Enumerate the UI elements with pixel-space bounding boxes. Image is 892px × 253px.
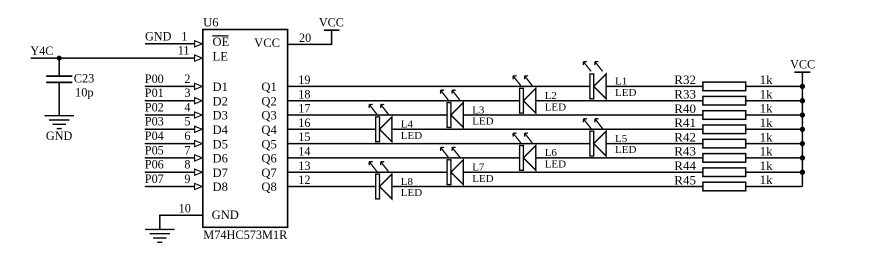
svg-text:1k: 1k (760, 86, 774, 101)
svg-text:10p: 10p (75, 85, 94, 99)
wire R33 to VCC bus (746, 100, 803, 102)
wire P03 to U6 pin 5 (D4) (145, 128, 195, 130)
svg-text:Q8: Q8 (261, 180, 276, 194)
svg-text:LED: LED (472, 116, 493, 128)
svg-text:P07: P07 (145, 172, 164, 186)
svg-text:D3: D3 (213, 109, 228, 123)
svg-text:LED: LED (545, 159, 566, 171)
wire U6 pin 16 (Q4) to LED L4 (288, 128, 378, 130)
wire U6 pin 18 (Q2) to LED L2 (288, 100, 522, 102)
wire U6 pin 15 (Q5) to LED L5 (288, 143, 592, 145)
wire L5 to R42 (606, 143, 703, 145)
svg-text:R45: R45 (674, 172, 696, 187)
pin arrow LE (195, 55, 203, 61)
svg-text:5: 5 (184, 115, 190, 129)
wire R43 to VCC bus (746, 157, 803, 159)
wire L8 to R45 (392, 186, 703, 188)
svg-text:LED: LED (615, 144, 636, 156)
junction Y4C / C23 (57, 56, 62, 61)
svg-text:P01: P01 (145, 86, 164, 100)
resistor R41 (703, 125, 746, 134)
pin arrow OE (195, 41, 203, 47)
svg-text:1: 1 (181, 30, 187, 44)
svg-text:6: 6 (184, 129, 190, 143)
ground (C23) (44, 116, 73, 129)
svg-text:VCC: VCC (319, 16, 344, 30)
pin arrow D7 (195, 169, 203, 175)
junction R33 / VCC bus (800, 98, 805, 103)
wire U6 pin 19 (Q1) to LED L1 (288, 85, 592, 87)
svg-text:R44: R44 (674, 158, 696, 173)
pin arrow D5 (195, 141, 203, 147)
svg-text:GND: GND (212, 208, 239, 222)
svg-text:9: 9 (184, 172, 190, 186)
junction R41 / VCC bus (800, 127, 805, 132)
svg-text:15: 15 (298, 130, 310, 144)
svg-text:1k: 1k (760, 72, 774, 87)
svg-text:19: 19 (298, 73, 310, 87)
svg-text:1k: 1k (760, 115, 774, 130)
svg-text:GND: GND (145, 30, 172, 44)
svg-text:17: 17 (298, 102, 310, 116)
pin arrow D3 (195, 112, 203, 118)
svg-text:D4: D4 (213, 123, 229, 137)
wire P01 to U6 pin 3 (D2) (145, 100, 195, 102)
svg-text:R40: R40 (674, 101, 696, 116)
LED L8 (369, 162, 392, 199)
wire P05 to U6 pin 7 (D6) (145, 157, 195, 159)
svg-text:10: 10 (179, 202, 191, 216)
wire P00 to U6 pin 2 (D1) (145, 85, 195, 87)
pin label OE (with overline) (212, 35, 229, 49)
wire P02 to U6 pin 4 (D3) (145, 114, 195, 116)
svg-text:Q7: Q7 (261, 166, 276, 180)
svg-text:8: 8 (184, 158, 190, 172)
svg-text:P05: P05 (145, 143, 164, 157)
svg-text:Q5: Q5 (261, 137, 276, 151)
svg-text:R33: R33 (674, 87, 696, 102)
svg-text:C23: C23 (74, 72, 95, 86)
power VCC (U6 pin 20) (319, 16, 344, 31)
svg-text:D5: D5 (213, 137, 228, 151)
svg-text:1k: 1k (760, 129, 774, 144)
wire Y4C to U6 pin 11 (LE) (31, 57, 195, 59)
svg-text:D2: D2 (213, 94, 228, 108)
resistor R32 (703, 82, 746, 91)
svg-text:16: 16 (298, 116, 310, 130)
svg-text:D1: D1 (213, 80, 228, 94)
resistor R42 (703, 139, 746, 148)
wire P07 to U6 pin 9 (D8) (145, 186, 195, 188)
wire R42 to VCC bus (746, 143, 803, 145)
svg-text:U6: U6 (203, 16, 218, 30)
junction R32 / VCC bus (800, 84, 805, 89)
junction R40 / VCC bus (800, 112, 805, 117)
svg-text:LED: LED (401, 130, 422, 142)
svg-text:7: 7 (184, 143, 190, 157)
svg-text:OE: OE (213, 35, 230, 49)
resistor R40 (703, 111, 746, 120)
resistor R43 (703, 154, 746, 163)
svg-text:R32: R32 (674, 72, 696, 87)
svg-text:Q2: Q2 (261, 94, 276, 108)
svg-text:4: 4 (184, 100, 190, 114)
svg-text:3: 3 (184, 86, 190, 100)
svg-text:Q6: Q6 (261, 152, 276, 166)
svg-text:18: 18 (298, 87, 310, 101)
svg-text:VCC: VCC (254, 36, 280, 50)
svg-text:2: 2 (184, 72, 190, 86)
svg-text:1k: 1k (760, 158, 774, 173)
wire R45 to VCC bus (746, 186, 803, 188)
wire R32 to VCC bus (746, 85, 803, 87)
pin arrow D2 (195, 98, 203, 104)
LED L4 (369, 105, 392, 142)
svg-text:P03: P03 (145, 115, 164, 129)
wire U6 pin 10 to ground (160, 215, 203, 229)
wire R40 to VCC bus (746, 114, 803, 116)
LED L1 (583, 62, 606, 99)
wire L4 to R41 (392, 128, 703, 130)
power VCC (bus) (790, 58, 815, 73)
svg-text:LED: LED (472, 173, 493, 185)
wire R44 to VCC bus (746, 171, 803, 173)
svg-text:Q3: Q3 (261, 109, 276, 123)
wire C23 to ground (58, 82, 60, 115)
svg-text:R41: R41 (674, 115, 696, 130)
pin arrow D1 (195, 83, 203, 89)
LED L2 (513, 76, 536, 113)
wire U6 pin 20 to VCC (288, 30, 332, 44)
wire R41 to VCC bus (746, 128, 803, 130)
svg-text:20: 20 (299, 31, 311, 45)
svg-text:1k: 1k (760, 172, 774, 187)
wire L2 to R33 (536, 100, 703, 102)
pin arrow D8 (195, 183, 203, 189)
wire L7 to R44 (463, 171, 703, 173)
svg-text:D6: D6 (213, 152, 228, 166)
wire L3 to R40 (463, 114, 703, 116)
svg-text:1k: 1k (760, 144, 774, 159)
wire U6 pin 14 (Q6) to LED L6 (288, 157, 522, 159)
resistor R45 (703, 182, 746, 191)
junction R44 / VCC bus (800, 170, 805, 175)
svg-text:GND: GND (46, 129, 73, 143)
IC U6 body (203, 30, 288, 228)
svg-text:1k: 1k (760, 101, 774, 116)
svg-text:M74HC573M1R: M74HC573M1R (203, 228, 288, 242)
svg-text:LED: LED (615, 87, 636, 99)
junction R43 / VCC bus (800, 155, 805, 160)
wire L6 to R43 (536, 157, 703, 159)
LED L3 (441, 90, 464, 127)
ground (U6 pin 10) (145, 229, 175, 242)
svg-text:Q1: Q1 (261, 80, 276, 94)
svg-text:P04: P04 (145, 129, 164, 143)
svg-text:D8: D8 (213, 180, 228, 194)
wire P06 to U6 pin 8 (D7) (145, 171, 195, 173)
wire VCC bus (801, 72, 803, 186)
capacitor C23 (46, 76, 72, 82)
svg-text:R42: R42 (674, 129, 696, 144)
resistor R33 (703, 96, 746, 105)
svg-text:P00: P00 (145, 72, 164, 86)
svg-text:LED: LED (401, 187, 422, 199)
junction R42 / VCC bus (800, 141, 805, 146)
svg-text:Q4: Q4 (261, 123, 277, 137)
pin arrow D6 (195, 155, 203, 161)
svg-text:R43: R43 (674, 144, 696, 159)
svg-text:Y4C: Y4C (30, 44, 53, 58)
wire junction to C23 (58, 58, 60, 76)
wire U6 pin 12 (Q8) to LED L8 (288, 186, 378, 188)
wire L1 to R32 (606, 85, 703, 87)
wire U6 pin 17 (Q3) to LED L3 (288, 114, 449, 116)
wire GND to U6 pin 1 (OE) (145, 43, 195, 45)
LED L6 (513, 133, 536, 170)
pin arrow D4 (195, 126, 203, 132)
svg-text:VCC: VCC (790, 58, 815, 72)
svg-text:D7: D7 (213, 166, 228, 180)
LED L5 (583, 119, 606, 156)
svg-text:LED: LED (545, 101, 566, 113)
wire P04 to U6 pin 6 (D5) (145, 143, 195, 145)
svg-text:13: 13 (298, 159, 310, 173)
LED L7 (441, 147, 464, 184)
svg-text:P02: P02 (145, 100, 164, 114)
wire U6 pin 13 (Q7) to LED L7 (288, 171, 449, 173)
svg-text:14: 14 (298, 145, 310, 159)
resistor R44 (703, 168, 746, 177)
svg-text:P06: P06 (145, 158, 164, 172)
svg-text:11: 11 (178, 44, 190, 58)
svg-text:LE: LE (213, 49, 229, 63)
svg-text:12: 12 (298, 173, 310, 187)
